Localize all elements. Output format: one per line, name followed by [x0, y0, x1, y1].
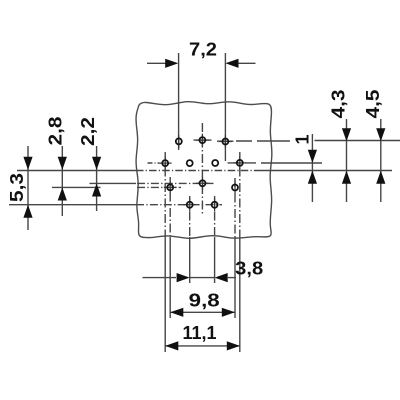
hole D2: [212, 202, 218, 208]
wire row B axis stub right of hole B4: [228, 162, 257, 164]
hole C2: [200, 180, 206, 186]
wire hole B4 centre cross: [233, 156, 246, 169]
hole B1: [162, 160, 168, 166]
dimension 7,2 arrow right: [225, 59, 238, 68]
wire centre line hole D1 column: [189, 196, 191, 237]
dimension 2,2 line: [96, 146, 98, 211]
hole A1: [176, 138, 182, 144]
dimension 3,8 line: [143, 277, 237, 279]
hole C1: [167, 184, 173, 190]
hole D1: [187, 202, 193, 208]
dimension 11,1 line: [165, 345, 240, 347]
dimension 9,8 arrow right: [222, 308, 235, 317]
wire extension line hole B1 column lower: [164, 237, 166, 352]
wire hole C1 centre cross: [164, 181, 177, 194]
wire row C2 axis solid left segment: [90, 182, 137, 184]
svg-text:11,1: 11,1: [183, 323, 217, 343]
wire datum line right segment: [258, 170, 392, 172]
wire centre line hole D2 column: [214, 196, 216, 237]
dimension 2,2 arrow upper: [92, 157, 101, 170]
dimension 11,1 arrow right: [227, 341, 240, 350]
wire hole A3 centre cross: [219, 135, 232, 148]
dimension 4,5 line: [380, 119, 382, 202]
wire hole A2 horizontal axis stub: [194, 139, 212, 141]
hole B4: [237, 160, 243, 166]
svg-text:2,2: 2,2: [78, 117, 98, 146]
svg-text:4,5: 4,5: [363, 90, 383, 119]
dimension 2,8 arrow lower: [58, 187, 67, 200]
wire row B axis stub left of hole B1: [148, 162, 160, 164]
dimension 11,1 arrow left: [165, 341, 178, 350]
dimension 7,2 arrow left: [165, 59, 178, 68]
dimension 4,3 arrow upper: [342, 128, 351, 141]
wire row C1 axis dash-dot segment: [137, 186, 181, 188]
dimension 9,8 arrow left: [170, 308, 183, 317]
wire row D axis solid left segment: [9, 204, 136, 206]
hole A3: [222, 139, 228, 145]
svg-text:1: 1: [293, 134, 313, 144]
wire centre line hole B4 column: [239, 152, 241, 237]
wire row A extension line far right: [315, 140, 400, 142]
wire extension line hole C3 column lower: [234, 237, 236, 318]
dimension 4,5 arrow lower: [376, 171, 385, 184]
wire row A axis dashes right of hole A3: [236, 140, 290, 142]
wire row D axis dash-dot segment: [136, 204, 222, 206]
dimension 2,8 line: [61, 146, 63, 216]
hole B3: [212, 160, 218, 166]
wire hole B1 centre cross: [159, 157, 172, 170]
hole C3: [232, 185, 238, 191]
dimension 3,8 arrow left: [177, 273, 190, 282]
svg-text:9,8: 9,8: [189, 290, 220, 310]
dimension 4,3 arrow lower: [342, 171, 351, 184]
wire row C2 axis dash-dot segment: [137, 182, 214, 184]
wire hole D1 centre cross: [183, 198, 196, 211]
dimension 2,2 arrow lower: [92, 183, 101, 196]
wire extension line hole D1 column lower: [189, 237, 191, 283]
wire centre line hole C3 column: [234, 178, 236, 237]
wire extension line hole C1 column lower: [169, 237, 171, 318]
wire hole A3 horizontal axis stub: [217, 140, 234, 142]
wire row C1 axis solid left segment: [52, 186, 101, 188]
wire hole A2 centre cross: [196, 134, 209, 147]
svg-text:7,2: 7,2: [189, 39, 217, 59]
dimension 5,3 line: [27, 146, 29, 230]
wire hole D2 centre stub: [214, 198, 216, 211]
connector body outline (broken-out section): [136, 102, 272, 239]
wire hole C2 centre cross: [196, 177, 209, 190]
wire hole C3 centre stub: [234, 181, 236, 194]
hole B2: [187, 160, 193, 166]
wire row B extension line right: [261, 162, 322, 164]
svg-text:2,8: 2,8: [46, 117, 66, 146]
dimension 4,5 arrow upper: [376, 128, 385, 141]
wire hole A1 centre cross: [178, 135, 180, 148]
wire extension line hole A3 column: [224, 53, 226, 161]
dimension 5,3 arrow upper: [23, 157, 32, 170]
dimension 2,8 arrow upper: [58, 157, 67, 170]
dimension 9,8 line: [170, 311, 235, 313]
wire datum line left segment: [17, 170, 136, 172]
wire datum line centre dash-dot segment: [136, 170, 258, 172]
wire extension line hole A1 column: [178, 53, 180, 150]
wire extension line hole B4 column lower: [239, 237, 241, 352]
wire centre line hole B1 column: [164, 152, 166, 237]
dimension 5,3 arrow lower: [23, 205, 32, 218]
wire extension line hole D2 column lower: [214, 237, 216, 283]
svg-text:5,3: 5,3: [7, 173, 27, 202]
hole A2: [199, 137, 205, 143]
wire centre line hole C1 column: [169, 177, 171, 237]
dimension 3,8 arrow right: [215, 273, 228, 282]
dimension 4,3 line: [346, 119, 348, 202]
dimension 1 line: [311, 134, 313, 202]
dimension 1 arrow upper: [308, 150, 317, 163]
dimension 7,2 line: [147, 62, 256, 64]
dimension 1 arrow lower: [308, 171, 317, 184]
svg-text:4,3: 4,3: [328, 90, 348, 119]
wire centre line holes A2/C2 column: [201, 123, 203, 216]
svg-text:3,8: 3,8: [235, 259, 263, 279]
